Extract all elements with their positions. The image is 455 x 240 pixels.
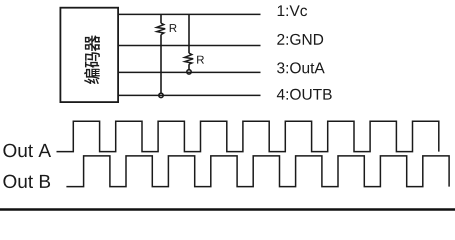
label Out A [3,144,51,157]
label Out B [3,175,50,188]
waveform Out B [66,156,449,187]
wire vertical branch R2 top [188,14,190,53]
label R2 value R [197,56,204,64]
wire pin2 GND [118,45,261,47]
wire pin1 Vc [118,13,261,15]
junction node on wire3 [187,70,191,74]
label pin2 2:GND [277,34,323,45]
waveform Out A [57,121,439,151]
label pin4 4:OUTB [277,89,332,100]
resistor R1 zigzag [157,23,166,34]
wire vertical branch R1 bottom [160,35,162,93]
wire vertical branch R2 bottom [188,64,190,69]
label pin3 3:OutA [277,62,325,73]
encoder box U1 [60,8,118,102]
encoder label 编码器 (rotated 90 CCW) [84,35,100,84]
wire vertical branch R1 top [160,14,162,23]
wire pin3 OutA [118,71,261,73]
junction node on wire4 [159,93,163,97]
bottom rule [0,208,455,210]
resistor R2 zigzag [185,53,194,64]
label R1 value R [170,24,177,32]
wire pin4 OutB [118,94,261,96]
label pin1 1:Vc [278,5,307,16]
